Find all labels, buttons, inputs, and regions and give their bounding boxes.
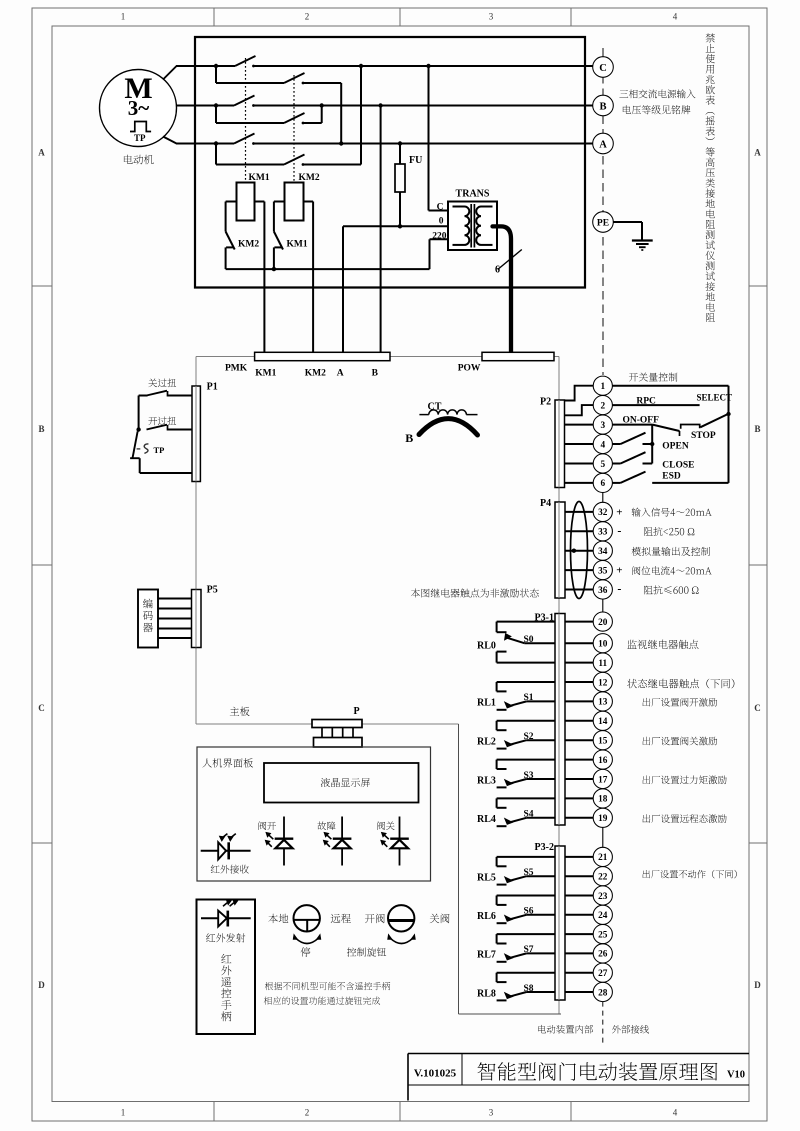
shield junction dot (572, 549, 576, 553)
label + (35) (616, 565, 622, 577)
connector bar P5 (192, 590, 202, 648)
label 编码器 (143, 599, 153, 633)
svg-text:P4: P4 (540, 498, 551, 509)
svg-text:RL8: RL8 (477, 988, 496, 999)
label version V10 (727, 1070, 745, 1081)
thermal switch TP (130, 430, 192, 474)
wire P3-1 pin 20 (565, 621, 593, 623)
svg-text:1: 1 (121, 12, 126, 22)
svg-text:2: 2 (600, 401, 605, 411)
wire phase-2 (to B) (176, 103, 592, 107)
wire P4-36 (565, 589, 593, 591)
label S3 (524, 771, 534, 781)
label P1 (207, 382, 218, 393)
wire P2-6 (565, 482, 594, 484)
terminal 15 (593, 731, 612, 750)
label RL7 (477, 950, 496, 961)
ground (earth) symbol (613, 222, 652, 250)
svg-text:PMK: PMK (225, 364, 248, 374)
switch CLOSE (612, 452, 652, 463)
svg-text:36: 36 (598, 586, 608, 596)
contactor KM2 main contact row-2 (284, 113, 305, 123)
wire KM2 coil left + NC KM1 interlock (272, 202, 285, 272)
svg-text:35: 35 (598, 566, 608, 576)
relay contact RL4 / S4 (497, 798, 555, 826)
svg-text:C: C (437, 203, 444, 213)
label RL3 (477, 775, 496, 786)
svg-text:18: 18 (598, 795, 608, 805)
link terminals 19-21 (602, 827, 604, 847)
relay contact RL8 / S8 (497, 973, 555, 1001)
link terminals 6-32 (602, 493, 604, 503)
svg-text:S2: S2 (524, 732, 534, 742)
svg-text:2: 2 (305, 12, 310, 22)
switch ESD (612, 472, 728, 483)
wire P3-2 pin 27 (565, 972, 593, 974)
svg-text:S6: S6 (524, 907, 534, 917)
svg-text:3: 3 (600, 421, 605, 431)
terminal B (593, 95, 614, 116)
label RL2 (477, 737, 496, 748)
relay contact RL2 / S2 (497, 721, 555, 749)
label 阻抗≤600Ω (644, 585, 699, 594)
LCD box 液晶显示屏 (264, 763, 419, 803)
contactor compartment box (195, 37, 585, 288)
terminal 25 (593, 925, 612, 944)
svg-text:16: 16 (598, 756, 608, 766)
svg-text:C: C (754, 703, 761, 713)
label 出厂设置不动作（下同） (642, 870, 736, 879)
label 外部接线 (612, 1025, 649, 1034)
label 控制旋钮 (347, 947, 386, 956)
motor lead 2 (176, 105, 178, 107)
label RL5 (477, 873, 496, 884)
svg-text:RL4: RL4 (477, 814, 496, 825)
wire P3-1 pin 16 (565, 759, 593, 761)
svg-text:RL0: RL0 (477, 641, 496, 652)
svg-text:19: 19 (598, 814, 608, 824)
transformer TRANS (448, 202, 497, 251)
terminal 17 (593, 769, 612, 788)
label RL4 (477, 814, 496, 825)
connector bar PMK (255, 352, 390, 360)
label 出厂设置阀开激励 (643, 698, 718, 707)
label S0 (524, 635, 534, 645)
svg-text:ESD: ESD (662, 472, 681, 482)
motor lead 3 (163, 137, 177, 144)
label OPEN (662, 441, 689, 451)
KM1 linkage (dashed) (245, 58, 247, 183)
terminal 3 (593, 415, 612, 434)
label RL0 (477, 641, 496, 652)
terminal 1 (593, 376, 612, 395)
terminal 21 (593, 847, 612, 866)
terminal 34 (593, 541, 612, 560)
title block frame (408, 1054, 749, 1101)
label 红外遥控手柄 (vertical) (221, 954, 231, 1021)
label RL1 (477, 698, 496, 709)
wire P3-2 pin 24 (565, 914, 593, 916)
label P3-1 (535, 613, 554, 624)
svg-text:3~: 3~ (128, 96, 150, 120)
svg-text:RL7: RL7 (477, 950, 496, 961)
wire P3-1 pin 10 (565, 642, 593, 644)
relay contact RL6 / S6 (497, 896, 555, 924)
wire SELECT common (612, 386, 730, 483)
terminal 6 (593, 473, 612, 492)
label 关过扭 (148, 379, 176, 388)
label KM1 (coil) (249, 173, 270, 183)
svg-text:CLOSE: CLOSE (662, 460, 694, 470)
svg-text:KM2: KM2 (305, 368, 326, 378)
wire P3-1 pin 14 (565, 720, 593, 722)
wire P4-33 (565, 530, 593, 532)
wire ON-OFF (612, 424, 652, 426)
terminal 4 (593, 434, 612, 453)
TP symbol (137, 444, 149, 453)
label pin B (372, 368, 379, 378)
terminal 19 (593, 808, 612, 827)
label - (36) (617, 582, 621, 596)
svg-text:D: D (38, 980, 45, 990)
svg-text:RPC: RPC (636, 397, 656, 407)
svg-text:KM2: KM2 (238, 240, 259, 250)
svg-text:RL5: RL5 (477, 873, 496, 884)
svg-text:RL1: RL1 (477, 698, 496, 709)
label KM2 (coil) (299, 173, 320, 183)
label P3-2 (535, 842, 554, 853)
wire phase-3 (to A) (176, 141, 593, 145)
svg-text:+: + (616, 565, 622, 577)
svg-text:1: 1 (121, 1108, 126, 1118)
svg-text:D: D (754, 980, 761, 990)
wire KM2 coil right to PMK (304, 202, 314, 353)
note line 1 (265, 982, 390, 990)
svg-text:+: + (616, 506, 622, 518)
label RL6 (477, 911, 496, 922)
svg-text:FU: FU (409, 155, 422, 166)
label 输入信号4～20mA (632, 508, 712, 517)
LED 阀开 (265, 817, 293, 866)
svg-text:V.101025: V.101025 (414, 1068, 457, 1080)
svg-text:B: B (599, 101, 606, 112)
cable core marker slash (498, 250, 522, 270)
svg-text:220: 220 (432, 232, 447, 242)
terminal 12 (593, 672, 612, 691)
motor lead 1 (163, 66, 177, 80)
label 开过扭 (148, 417, 176, 426)
relay contact RL1 / S1 (497, 682, 555, 710)
label warning 禁止使用兆欧表… (705, 33, 714, 322)
label RL8 (477, 988, 496, 999)
label ESD (662, 472, 681, 482)
terminal 2 (593, 396, 612, 415)
control knob open/close (388, 905, 416, 943)
svg-text:RL2: RL2 (477, 737, 496, 748)
label CLOSE (662, 460, 694, 470)
svg-text:A: A (599, 139, 607, 150)
svg-text:B: B (754, 424, 760, 434)
svg-text:27: 27 (598, 969, 608, 979)
wire P3-2 pin 25 (565, 933, 593, 935)
relay contact RL7 / S7 (497, 934, 555, 962)
label 本图继电器触点为非激励状态 (411, 589, 539, 598)
contactor KM2 main contact row-3 (284, 155, 305, 165)
wire P3-1 pin 17 (565, 778, 593, 780)
contactor KM1 main contact phase-1 (235, 56, 256, 66)
terminal 24 (593, 905, 612, 924)
label POW (458, 364, 481, 374)
svg-text:0: 0 (439, 217, 444, 227)
svg-text:P2: P2 (540, 397, 551, 408)
label FU (409, 155, 422, 166)
label pin KM1 (255, 368, 276, 378)
svg-text:20: 20 (598, 618, 608, 628)
dashed divider internal/external (602, 1002, 604, 1046)
label S7 (524, 945, 534, 955)
svg-text:6: 6 (600, 479, 605, 489)
connector bar P3-1 (555, 614, 565, 826)
wire P3-1 pin 11 (565, 662, 593, 664)
svg-text:S5: S5 (524, 868, 534, 878)
svg-text:24: 24 (598, 911, 608, 921)
label 电动机 (124, 155, 154, 165)
wire P3-2 pin 28 (565, 991, 593, 993)
dashed terminal column (602, 48, 604, 375)
relay contact RL3 / S3 (497, 760, 555, 788)
svg-text:5: 5 (600, 460, 605, 470)
label 出厂设置远程态激励 (643, 814, 727, 823)
label S4 (524, 810, 534, 820)
board outline (device internal boundary) (196, 357, 561, 1014)
terminal 16 (593, 750, 612, 769)
label 远程 (331, 914, 351, 923)
LED 故障 (324, 817, 352, 866)
svg-text:SELECT: SELECT (697, 393, 733, 403)
svg-text:23: 23 (598, 892, 608, 902)
svg-text:RL6: RL6 (477, 911, 496, 922)
terminal 36 (593, 580, 612, 599)
terminal 35 (593, 561, 612, 580)
label 开阀 (365, 914, 385, 924)
svg-text:3: 3 (489, 1108, 494, 1118)
svg-text:PE: PE (597, 219, 609, 229)
connector bar POW (482, 352, 554, 360)
wire KM2 branch row-2 (216, 106, 322, 125)
svg-text:15: 15 (598, 737, 608, 747)
label 6 (495, 265, 500, 276)
label SELECT (697, 393, 733, 403)
wire P2-2 (565, 405, 594, 415)
label 阀关 (377, 821, 394, 830)
terminal 23 (593, 886, 612, 905)
terminal 20 (593, 612, 612, 631)
label S2 (524, 732, 534, 742)
label PMK (225, 364, 248, 374)
switch 关过扭 (close over-torque) (139, 391, 192, 430)
svg-text:12: 12 (598, 678, 608, 688)
label 监视继电器触点 (627, 640, 698, 649)
label P (353, 706, 359, 717)
svg-text:S8: S8 (524, 984, 534, 994)
terminal 22 (593, 867, 612, 886)
label STOP (691, 431, 716, 441)
coil KM2 (285, 183, 304, 221)
label 人机界面板 (202, 758, 253, 767)
label 停 (301, 947, 311, 957)
svg-text:21: 21 (598, 853, 608, 863)
svg-text:TP: TP (134, 133, 146, 143)
label TP (154, 445, 165, 455)
svg-text:25: 25 (598, 930, 608, 940)
svg-text:B: B (38, 424, 44, 434)
wire P2-1 (565, 386, 594, 401)
wire KM1 coil right to PMK (255, 202, 265, 353)
relay contact RL0 / S0 (497, 622, 555, 663)
svg-text:-: - (617, 523, 621, 537)
label P5 (207, 584, 218, 595)
terminal 32 (593, 502, 612, 521)
svg-text:33: 33 (598, 528, 608, 538)
label S8 (524, 984, 534, 994)
label 红外发射 (206, 933, 245, 942)
svg-text:C: C (599, 63, 607, 74)
connector bar P1 (192, 386, 200, 482)
label pin KM2 (305, 368, 326, 378)
LED 阀关 (381, 817, 409, 866)
encoder wires (158, 599, 192, 639)
label 阀开 (259, 821, 277, 830)
svg-text:A: A (754, 148, 761, 158)
wire P4-34 (565, 550, 593, 552)
svg-text:S7: S7 (524, 945, 534, 955)
wire KM2 branch row-3 (216, 66, 361, 166)
svg-text:A: A (38, 148, 45, 158)
svg-text:14: 14 (598, 717, 608, 727)
svg-text:22: 22 (598, 873, 608, 883)
svg-text:P3-2: P3-2 (535, 842, 554, 853)
KM2 linkage (dashed) (293, 75, 295, 183)
label P2 (540, 397, 551, 408)
link terminals 36-20 (602, 599, 604, 612)
label S5 (524, 868, 534, 878)
svg-text:TRANS: TRANS (456, 189, 490, 200)
connector bar P3-2 (555, 846, 565, 1000)
svg-text:B: B (405, 431, 413, 445)
terminal 14 (593, 711, 612, 730)
label tap C (437, 203, 444, 213)
svg-text:S0: S0 (524, 635, 534, 645)
wire P3-2 pin 26 (565, 952, 593, 954)
wire 0-tap to PMK pin A (343, 226, 448, 352)
svg-text:32: 32 (598, 508, 608, 518)
svg-text:KM1: KM1 (287, 240, 308, 250)
coil KM1 (237, 183, 255, 221)
selector knob local/remote (293, 905, 321, 943)
svg-text:STOP: STOP (691, 431, 716, 441)
contactor KM2 main contact row-1 (284, 73, 305, 83)
svg-text:RL3: RL3 (477, 775, 496, 786)
wire P4-35 (565, 569, 593, 571)
svg-text:10: 10 (598, 640, 608, 650)
svg-text:11: 11 (598, 659, 607, 669)
wire P4-32 (565, 511, 593, 513)
label 出厂设置过力矩激励 (643, 775, 727, 784)
svg-text:4: 4 (673, 12, 678, 22)
label pin A (337, 368, 344, 378)
wire P2-3 (565, 424, 594, 426)
wire phase-1 (to C) (176, 64, 593, 68)
encoder box 编码器 (138, 590, 158, 648)
terminal PE (593, 212, 614, 233)
wire KM1 coil left + NC KM2 interlock (226, 202, 237, 270)
contactor KM1 main contact phase-2 (234, 96, 255, 106)
label 阻抗<250Ω (644, 527, 694, 536)
label 关阀 (430, 914, 450, 924)
svg-text:2: 2 (305, 1108, 310, 1118)
wire P3-1 pin 19 (565, 817, 593, 819)
wire P3-1 pin 15 (565, 739, 593, 741)
switch 开过扭 (open over-torque) (136, 425, 192, 432)
IR remote handle box (197, 900, 256, 1035)
label 模拟量输出及控制 (632, 547, 710, 556)
svg-text:-: - (617, 582, 621, 596)
current transformer CT (419, 402, 478, 436)
wire KM2 branch row-1 (216, 66, 341, 144)
svg-text:28: 28 (598, 988, 608, 998)
label title 智能型阀门电动装置原理图 (478, 1062, 718, 1081)
selector chain ON-OFF/STOP/SELECT (653, 414, 729, 436)
svg-text:P5: P5 (207, 584, 218, 595)
label drawing number V.101025 (414, 1068, 457, 1080)
terminal 11 (593, 653, 612, 672)
label KM2 (interlock) (238, 240, 259, 250)
board outline segments over connector bars (196, 386, 559, 1000)
svg-text:P1: P1 (207, 382, 218, 393)
wire RPC (612, 404, 699, 406)
svg-text:KM1: KM1 (255, 368, 276, 378)
connector bar P2 (555, 400, 565, 488)
svg-text:ON-OFF: ON-OFF (623, 415, 660, 425)
note line 2 (264, 996, 380, 1004)
svg-text:KM1: KM1 (249, 173, 270, 183)
svg-text:17: 17 (598, 775, 608, 785)
IR emitter LED 红外发射 (201, 900, 251, 927)
connector P (board-to-board) (312, 720, 362, 748)
wire PMK pin B (380, 106, 382, 353)
label 阀位电流4～20mA (632, 566, 711, 575)
connector bar P4 (555, 502, 565, 598)
label 出厂设置阀关激励 (643, 737, 718, 746)
relay contact RL5 / S5 (497, 857, 555, 885)
label 主板 (230, 707, 250, 716)
svg-text:4: 4 (600, 440, 605, 450)
svg-text:S4: S4 (524, 810, 534, 820)
wire P3-2 pin 22 (565, 875, 593, 877)
label 电压等级见铭牌 (623, 105, 691, 114)
wire P3-1 pin 13 (565, 700, 593, 702)
label tap 0 (439, 217, 444, 227)
terminal 13 (593, 692, 612, 711)
motor M1 (100, 70, 177, 147)
wire P2-5 (565, 463, 594, 465)
label 红外接收 (211, 865, 249, 874)
terminal 5 (593, 454, 612, 473)
switch OPEN (612, 425, 654, 464)
svg-text:S1: S1 (524, 693, 534, 703)
wire P3-1 pin 18 (565, 797, 593, 799)
svg-text:6: 6 (495, 265, 500, 276)
